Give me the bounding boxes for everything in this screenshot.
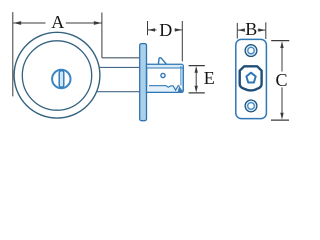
- dimension C down arrowhead: [280, 113, 283, 120]
- svg-text:B: B: [245, 19, 257, 39]
- latch housing mid line: [100, 66, 140, 68]
- bolt opening outline: [240, 66, 262, 90]
- bolt pin hole: [161, 73, 165, 77]
- dimension E up arrowhead: [195, 66, 198, 73]
- bolt face bevel: [178, 86, 183, 92]
- dimension D line left segment: [148, 29, 157, 31]
- svg-text:A: A: [51, 12, 64, 32]
- dimension C top tick: [271, 40, 289, 42]
- bolt end pentagon: [246, 73, 255, 83]
- latch housing bottom line: [97, 91, 140, 93]
- svg-text:E: E: [204, 68, 215, 88]
- dimension B line left segment: [238, 29, 245, 31]
- bottom screw hole inner: [248, 103, 255, 110]
- dimension A right arrowhead: [94, 21, 102, 25]
- bolt inner top line: [147, 67, 183, 69]
- top screw hole inner: [248, 47, 254, 53]
- dimension D right arrowhead: [175, 28, 182, 31]
- bottom screw hole outer: [245, 100, 257, 112]
- dimension D right extension line: [181, 21, 183, 61]
- thumbturn slot: [59, 71, 64, 88]
- dimension D left extension line: [147, 21, 149, 35]
- faceplate edge view: [140, 44, 147, 121]
- dimension B right arrowhead: [258, 28, 265, 31]
- bolt bottom band shading: [147, 87, 182, 92]
- dimension A left extension line: [12, 12, 14, 96]
- dimension B left extension line: [236, 23, 238, 39]
- inner rose circle: [22, 41, 91, 110]
- dimension E down arrowhead: [195, 86, 198, 93]
- dimension B right extension line: [265, 22, 267, 39]
- dimension C line upper segment: [281, 43, 283, 72]
- dimension E arrow line: [195, 68, 197, 91]
- dimension A left arrowhead: [13, 21, 21, 25]
- thumbturn circle: [52, 70, 70, 88]
- bolt body: [147, 64, 184, 92]
- svg-text:C: C: [275, 70, 287, 90]
- dimension A right extension line: [101, 13, 103, 58]
- dimension E top tick: [189, 65, 205, 67]
- latch housing top line: [102, 57, 140, 59]
- dimension A line right segment: [66, 22, 102, 24]
- svg-text:D: D: [159, 20, 172, 40]
- dimension E bottom tick: [189, 92, 205, 94]
- dimension D line right segment: [175, 29, 182, 31]
- outer rose circle: [14, 32, 100, 118]
- dimension B left arrowhead: [238, 28, 245, 31]
- dimension D left arrowhead: [148, 28, 155, 31]
- dimension C line lower segment: [281, 87, 283, 118]
- dimension A line left segment: [13, 22, 45, 24]
- dimension C up arrowhead: [280, 41, 283, 48]
- dimension B line right segment: [258, 29, 266, 31]
- bolt tab: [158, 58, 166, 64]
- top screw hole outer: [245, 45, 257, 57]
- dimension C bottom tick: [271, 119, 289, 121]
- bolt lower zigzag line: [149, 86, 180, 91]
- bolt inner right line: [180, 66, 182, 86]
- strike faceplate front view: [236, 39, 267, 118]
- bolt top band shading: [147, 65, 182, 68]
